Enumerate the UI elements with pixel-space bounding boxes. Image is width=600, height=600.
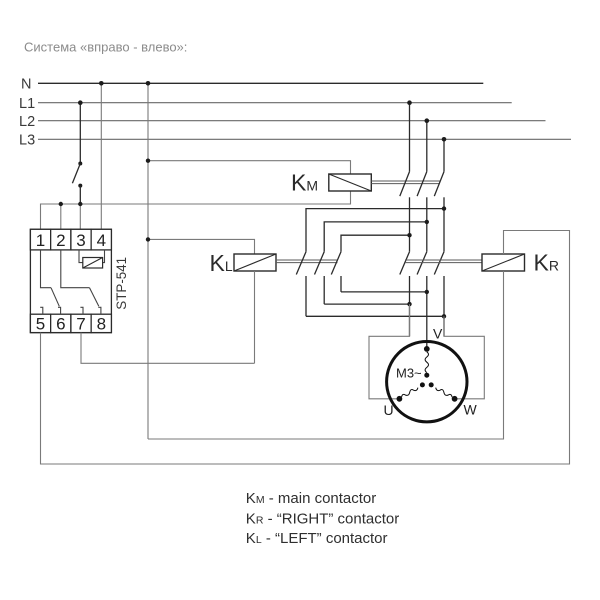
svg-text:7: 7 [76,315,85,334]
junction: phase 1 / KL contact 3 [407,233,411,237]
STP-541 contact tip terminal 7 [80,307,83,314]
wire: U net to motor terminal U [369,304,410,399]
wire: terminal 2 stub [60,204,62,229]
junction: L1 / switch tap [78,100,83,105]
wire: phase 3 crossover to KL contact 1 [306,209,444,252]
wire: KM out phase 1 vertical (to KR contact 1) [409,197,411,251]
terminal box 5 [30,314,50,332]
wire: KR out 2 / motor V lead [426,276,428,349]
svg-text:L2: L2 [19,114,35,130]
svg-text:1: 1 [36,231,45,250]
terminal box 3 [71,229,91,250]
wire: switch to control bus [79,186,81,204]
wire: L1 tap to main switch [79,103,81,164]
wire: KL coil bottom to terminal 7 line [254,271,256,363]
wire: N rail [38,82,483,84]
wire: KL out 3 [340,276,342,292]
motor terminal V dot [424,346,430,352]
switch S1 lower contact [78,184,82,188]
junction: W net [442,314,446,318]
wire: KM out phase 2 vertical (to KR contact 2) [426,197,428,251]
STP-541 contact tip terminal 5 [40,307,43,314]
motor star point W [429,382,434,387]
switch S1 upper contact [78,162,82,166]
svg-text:V: V [433,326,443,342]
wire: KR out 3 [443,276,445,336]
switch S1 blade [72,164,80,184]
KM contact 1 blade [400,172,410,197]
motor terminal W dot [452,396,458,402]
svg-text:STP-541: STP-541 [114,257,129,310]
linkage: KR coil to contacts [405,259,482,261]
coil KM [329,174,372,191]
STP-541 contact tip terminal 6 [58,307,61,314]
junction: V net [425,290,429,294]
terminal box 6 [51,314,71,332]
wire: KL out 3 to motor V net [341,291,427,293]
wire: terminal 7 to KL coil bottom [81,333,255,364]
svg-text:KM: KM [291,170,318,196]
svg-text:4: 4 [97,231,106,250]
linkage: KM coil to contacts [371,180,440,182]
wire: L1 to KM contact 1 [409,103,411,172]
terminal box 7 [71,314,91,332]
wire: KR coil bottom to N feed (inner loop) [148,271,504,439]
svg-text:6: 6 [56,315,65,334]
KR contact 3 blade [434,252,444,275]
wire: N feed to KL coil top [148,239,255,254]
STP-541 internal relay coil [83,258,103,269]
junction: phase 2 / KL contact 2 [425,220,429,224]
wire: L3 to KM contact 3 [443,139,445,171]
STP-541 internal contact 2 (terminal 2 common) [61,250,90,288]
STP-541 contact tip terminal 8 [98,307,101,314]
motor star point V [424,373,429,378]
junction: control feed / KM coil [146,159,150,163]
svg-text:8: 8 [97,315,106,334]
KL contact 3 blade [331,252,341,275]
svg-text:3: 3 [76,231,85,250]
motor star point U [420,382,425,387]
motor M1 body [387,342,467,422]
junction: L1 / KM contact 1 [407,100,412,105]
coil KR [482,254,525,271]
wire: phase 2 crossover to KL contact 2 [324,222,427,252]
wire: L2 rail [38,120,546,122]
junction: control feed / KL coil [146,237,150,241]
svg-text:KM - main contactor: KM - main contactor [246,490,376,507]
terminal box 1 [30,229,50,250]
linkage: KL coil to contacts [276,259,338,261]
wire: terminal 3 stub [79,204,81,229]
terminal box 8 [91,314,111,332]
junction: bus / terminal 2 [59,202,63,206]
wire: L1 rail [38,102,512,104]
svg-text:5: 5 [36,315,45,334]
wire: terminal 5 to KR coil loop (outer loop) [41,231,570,465]
motor winding W [436,388,452,398]
junction: L2 / KM contact 2 [425,118,430,123]
junction: N / terminal-4 feed [99,81,104,86]
wire: KL out 2 [323,276,325,304]
coil KL [234,254,276,271]
STP-541 internal relay coil leads [79,250,83,263]
svg-text:Система «вправо - влево»:: Система «вправо - влево»: [24,40,187,55]
motor terminal U dot [397,396,403,402]
wire: L2 to KM contact 2 [426,121,428,172]
junction: L3 / KM contact 3 [442,137,447,142]
wire: KR out 1 [409,276,411,336]
svg-text:2: 2 [56,231,65,250]
terminal box 2 [51,229,71,250]
wire: N control feed vertical [147,83,149,439]
svg-text:KR: KR [534,249,559,275]
svg-text:KR - “RIGHT” contactor: KR - “RIGHT” contactor [246,511,399,528]
svg-text:N: N [21,77,31,93]
wire: N to terminal 4 of STP-541 [100,83,102,229]
KR contact 2 blade [417,252,427,275]
module STP-541 outer box [30,229,111,332]
junction: U net [407,302,411,306]
wire: phase 1 crossover to KL contact 3 [341,235,410,252]
svg-text:L1: L1 [19,96,35,112]
svg-text:W: W [464,402,478,418]
KM contact 2 blade [417,172,427,197]
wire: L3 rail [38,138,571,140]
motor winding V [425,352,428,373]
svg-text:KL - “LEFT” contactor: KL - “LEFT” contactor [246,530,388,547]
wire: KL out 1 to motor W net [306,315,444,317]
motor winding U [402,388,418,398]
svg-text:KL: KL [210,250,233,276]
wire: W net to motor terminal W [444,316,484,399]
STP-541 internal contact 1 (terminal 1 common) [41,250,52,288]
wire: KM out phase 3 vertical (to KR contact 3) [443,197,445,251]
junction: bus / switch / terminal 3 [78,202,82,206]
svg-text:L3: L3 [19,132,35,148]
junction: phase 3 / KL contact 1 [442,206,446,210]
wire: KL out 1 [305,276,307,316]
terminal box 4 [91,229,111,250]
KR contact 1 blade [400,252,410,275]
wire: control bus (terminals 1,2,3 / KM coil bottom) [41,191,351,229]
KL contact 2 blade [315,252,325,275]
KL contact 1 blade [296,252,306,275]
wire: KL out 2 to motor U net [324,303,409,305]
KM contact 3 blade [434,172,444,197]
wire: N feed to KM coil top [148,161,351,174]
svg-text:M3~: M3~ [396,366,422,381]
svg-text:U: U [384,402,394,418]
junction: N / control feed [146,81,151,86]
